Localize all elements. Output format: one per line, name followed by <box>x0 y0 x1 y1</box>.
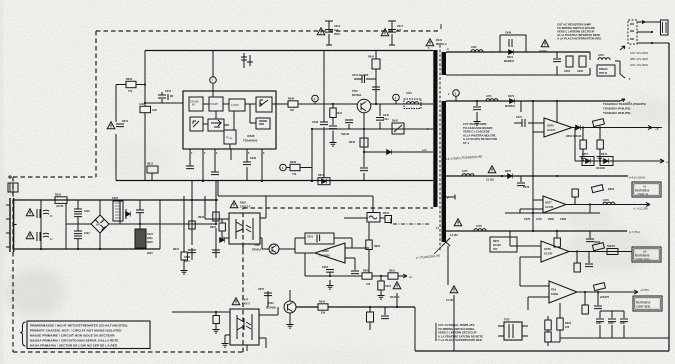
svg-text:21% 12V-25W: 21% 12V-25W <box>630 51 648 55</box>
svg-text:C641: C641 <box>383 114 390 117</box>
svg-text:IC630: IC630 <box>247 134 255 138</box>
svg-text:100n: 100n <box>383 118 389 121</box>
svg-text:0,36: 0,36 <box>139 103 144 106</box>
svg-text:1N4148: 1N4148 <box>341 133 350 136</box>
svg-text:TDA9302A (PHILIPS): TDA9302A (PHILIPS) <box>603 107 630 111</box>
svg-text:(+4,5/+150V): (+4,5/+150V) <box>629 176 645 180</box>
svg-text:77k: 77k <box>366 283 371 286</box>
svg-text:C687: C687 <box>620 323 626 325</box>
svg-text:4n7: 4n7 <box>334 29 339 32</box>
svg-text:D675: D675 <box>493 240 500 243</box>
svg-text:L671: L671 <box>486 95 492 98</box>
svg-text:BC548B: BC548B <box>266 307 276 310</box>
svg-text:D672: D672 <box>508 95 515 98</box>
svg-text:MURB-D: MURB-D <box>505 105 515 108</box>
svg-text:220/075: 220/075 <box>600 296 610 299</box>
svg-text:L667: L667 <box>471 46 477 49</box>
svg-text:L676: L676 <box>598 54 604 57</box>
svg-text:38% 12V-40W: 38% 12V-40W <box>630 57 648 61</box>
svg-text:DF501A: DF501A <box>252 249 262 252</box>
svg-text:GC17B: GC17B <box>544 253 553 256</box>
svg-text:+J /+12 28V: +J /+12 28V <box>633 207 648 211</box>
svg-text:R681: R681 <box>565 322 572 325</box>
svg-text:42% 12V-60W: 42% 12V-60W <box>630 63 648 67</box>
svg-text:R655: R655 <box>210 226 217 229</box>
svg-text:R620: R620 <box>126 78 133 81</box>
svg-text:C686: C686 <box>608 323 614 325</box>
svg-text:LOGIK: LOGIK <box>231 103 239 107</box>
svg-text:D641: D641 <box>436 39 443 42</box>
svg-text:C664: C664 <box>564 70 571 73</box>
svg-text:IC678: IC678 <box>544 248 551 251</box>
svg-text:CONT. 26: CONT. 26 <box>637 193 649 196</box>
svg-text:T655: T655 <box>254 244 260 247</box>
svg-text:BY: BY <box>192 103 196 107</box>
svg-text:R641: R641 <box>336 112 343 115</box>
svg-text:CNY17-F: CNY17-F <box>240 206 251 209</box>
svg-text:RTP 91: RTP 91 <box>599 72 608 75</box>
svg-text:MASSA PRIMARIA / CIRCUITO NON: MASSA PRIMARIA / CIRCUITO NON SEPAR. DAL… <box>30 339 119 343</box>
svg-text:IC676: IC676 <box>547 125 554 128</box>
svg-text:JA74k: JA74k <box>56 205 64 208</box>
svg-text:BY228: BY228 <box>493 244 501 247</box>
svg-text:C651: C651 <box>385 285 392 288</box>
svg-text:R622: R622 <box>55 194 62 197</box>
svg-text:A: A <box>447 48 449 51</box>
svg-text:C657: C657 <box>258 288 265 291</box>
svg-text:MASA PRIMARIA / SECTOR DE LOW: MASA PRIMARIA / SECTOR DE LOW NO SEP DE … <box>30 344 118 348</box>
svg-text:BF258A: BF258A <box>352 94 362 97</box>
svg-text:C626: C626 <box>250 157 257 160</box>
svg-text:L623: L623 <box>84 210 90 213</box>
svg-text:T620: T620 <box>268 302 274 305</box>
svg-text:13.15A: 13.15A <box>486 179 494 182</box>
svg-text:D647: D647 <box>601 153 608 156</box>
svg-text:TDA9302A/ TDA8345A (PHILIPS): TDA9302A/ TDA8345A (PHILIPS) <box>603 102 646 106</box>
svg-text:CONT 32/33: CONT 32/33 <box>636 258 651 261</box>
svg-text:D676: D676 <box>505 170 512 173</box>
svg-text:R640: R640 <box>288 97 295 100</box>
svg-text:1N4148: 1N4148 <box>596 167 605 170</box>
svg-text:C678: C678 <box>523 186 530 189</box>
svg-text:TDA4605/3: TDA4605/3 <box>243 139 258 143</box>
svg-text:R612: R612 <box>147 163 154 166</box>
svg-text:C666: C666 <box>577 70 584 73</box>
svg-text:D655: D655 <box>240 202 247 205</box>
svg-text:MR500-A: MR500-A <box>436 43 447 46</box>
svg-text:CONT 30/31: CONT 30/31 <box>637 305 652 308</box>
svg-text:(+7,75A): (+7,75A) <box>629 230 640 234</box>
svg-text:R655: R655 <box>363 269 370 272</box>
svg-text:44R: 44R <box>152 109 157 112</box>
svg-text:BA157A: BA157A <box>390 296 400 299</box>
svg-text:+D: +D <box>666 160 670 164</box>
svg-text:C652: C652 <box>322 266 329 269</box>
svg-text:C685: C685 <box>596 323 602 325</box>
svg-text:C651: C651 <box>307 236 314 239</box>
svg-text:C627: C627 <box>147 233 154 236</box>
svg-text:C614 33u/4R5: C614 33u/4R5 <box>352 74 369 77</box>
svg-text:260V: 260V <box>147 252 153 255</box>
svg-text:R652: R652 <box>374 245 381 248</box>
svg-text:C638: C638 <box>312 121 319 124</box>
svg-text:+27/5V: +27/5V <box>640 288 649 292</box>
svg-text:C672: C672 <box>516 116 523 119</box>
svg-text:4n7: 4n7 <box>397 29 402 32</box>
svg-text:+B: +B <box>655 127 659 131</box>
svg-text:Y LA PLACA SUPERPOSITE RED: Y LA PLACA SUPERPOSITE RED <box>438 338 482 342</box>
svg-text:A LA PLACA INTERRUPTOR RED: A LA PLACA INTERRUPTOR RED <box>557 37 601 41</box>
svg-text:13.15A: 13.15A <box>446 299 454 302</box>
svg-text:IC677: IC677 <box>545 202 552 205</box>
svg-text:MURB-D: MURB-D <box>504 60 514 63</box>
svg-text:R653: R653 <box>608 188 615 191</box>
svg-text:C617: C617 <box>397 25 404 28</box>
svg-text:77k: 77k <box>128 90 133 93</box>
svg-text:ST 4: ST 4 <box>463 141 469 145</box>
svg-text:13.15A: 13.15A <box>450 234 458 237</box>
svg-text:CNY17: CNY17 <box>242 303 251 306</box>
svg-text:C616: C616 <box>334 25 341 28</box>
svg-text:T675: T675 <box>504 319 510 322</box>
svg-text:DMS40-: DMS40- <box>599 68 608 71</box>
svg-text:D652 1N4148: D652 1N4148 <box>566 135 582 138</box>
svg-text:+h: +h <box>409 276 412 279</box>
svg-text:D657: D657 <box>582 153 589 156</box>
svg-text:C615: C615 <box>165 90 172 93</box>
svg-text:R616: R616 <box>368 56 375 59</box>
svg-text:L678: L678 <box>476 225 482 228</box>
svg-text:R631: R631 <box>173 248 180 251</box>
svg-text:PRIMARY CHASSIS. HOT! / CIRCUI: PRIMARY CHASSIS. HOT! / CIRCUIT NOT MAIN… <box>30 329 122 333</box>
svg-text:D647: D647 <box>242 299 249 302</box>
svg-text:R633: R633 <box>290 161 297 164</box>
svg-text:R643: R643 <box>349 141 356 144</box>
svg-text:TAA765A: TAA765A <box>319 255 330 258</box>
svg-text:L678: L678 <box>536 218 542 221</box>
svg-text:START: START <box>210 102 219 106</box>
svg-text:L644: L644 <box>406 92 412 95</box>
svg-text:R661: R661 <box>389 269 396 272</box>
svg-text:8138A: 8138A <box>551 293 559 296</box>
svg-text:MASSE PRIMAIRE / CIRCUIT NON I: MASSE PRIMAIRE / CIRCUIT NON ISOLÉ DU SE… <box>30 333 115 338</box>
svg-text:100: 100 <box>565 326 570 329</box>
svg-text:GA17A: GA17A <box>547 129 556 132</box>
svg-text:C648: C648 <box>505 32 512 35</box>
svg-text:L675: L675 <box>462 170 468 173</box>
svg-text:TDA8346A (PHILIPS): TDA8346A (PHILIPS) <box>603 111 630 115</box>
svg-text:384V: 384V <box>147 241 153 244</box>
svg-text:R654: R654 <box>383 212 390 215</box>
svg-text:FEATURE-B: FEATURE-B <box>636 302 650 305</box>
svg-text:FEATURE-B: FEATURE-B <box>635 190 649 193</box>
svg-text:R663: R663 <box>594 241 601 244</box>
svg-text:467: 467 <box>290 109 295 112</box>
svg-text:R680: R680 <box>548 218 555 221</box>
svg-text:45V: 45V <box>493 248 498 251</box>
svg-text:560/1S: 560/1S <box>607 245 615 248</box>
svg-text:IC650: IC650 <box>322 250 329 253</box>
svg-text:D642: D642 <box>392 120 399 123</box>
svg-text:T640: T640 <box>352 90 358 93</box>
svg-text:C680: C680 <box>560 218 567 221</box>
svg-text:250V~: 250V~ <box>334 33 342 36</box>
svg-text:77k: 77k <box>292 173 297 176</box>
svg-text:220u: 220u <box>147 237 153 240</box>
svg-text:C679: C679 <box>524 218 531 221</box>
svg-text:R626: R626 <box>198 216 205 219</box>
svg-text:TDA: TDA <box>551 289 556 292</box>
svg-text:22k: 22k <box>321 312 326 315</box>
svg-text:L679: L679 <box>603 199 609 202</box>
svg-text:D661: D661 <box>507 56 514 59</box>
svg-text:GC17B: GC17B <box>545 206 554 209</box>
svg-text:L624: L624 <box>84 232 90 235</box>
svg-text:PRIMÄRMASSE / NICHT NETZGETREN: PRIMÄRMASSE / NICHT NETZGETRENNTES SCHAL… <box>30 324 128 328</box>
svg-text:R642: R642 <box>319 300 326 303</box>
svg-text:D619: D619 <box>122 120 129 123</box>
svg-text:FEATURE-B: FEATURE-B <box>635 255 649 258</box>
svg-text:D617: D617 <box>318 174 325 177</box>
